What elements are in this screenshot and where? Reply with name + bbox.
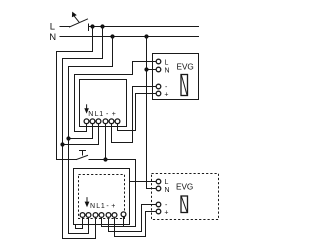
wire L bus right segment xyxy=(89,26,199,28)
svg-text:L: L xyxy=(165,60,169,67)
EVG2 terminal circles minus plus xyxy=(156,202,161,207)
svg-text:+: + xyxy=(112,111,116,118)
svg-text:EVG: EVG xyxy=(176,183,193,192)
svg-text:L: L xyxy=(96,203,100,210)
wire U1 terminal 1 to pushbutton line xyxy=(105,124,107,160)
svg-text:N: N xyxy=(165,68,170,75)
svg-text:1: 1 xyxy=(101,203,105,210)
svg-text:L: L xyxy=(165,179,169,186)
node dot N junction xyxy=(66,136,70,140)
node dot N bus x112.5 xyxy=(110,34,114,38)
wire from L bus to L1 terminals xyxy=(63,27,103,239)
node dot L bus x92.5 xyxy=(90,24,94,28)
wire U2 N terminal to N drop xyxy=(69,218,89,234)
control unit U1 output arrow xyxy=(86,105,88,109)
svg-text:N: N xyxy=(88,111,93,118)
wire auxiliary terminal branch xyxy=(123,217,125,226)
pushbutton T1 blade xyxy=(77,155,88,159)
wire EVG2 N stub xyxy=(147,188,156,190)
wire U1 N terminal to N drop xyxy=(69,124,93,139)
node dot L bus x102.5 xyxy=(100,24,104,28)
wire N bus xyxy=(60,36,199,38)
wire L bus left segment xyxy=(60,26,70,28)
svg-text:1: 1 xyxy=(99,111,103,118)
node dot L1 junction xyxy=(60,142,64,146)
wire U2 output terminal loop to box xyxy=(76,218,83,229)
wire U1 minus terminal to EVG1 minus xyxy=(112,87,156,143)
wire U2 minus terminal to EVG2 minus xyxy=(109,205,156,232)
node dot N bus x146.5 xyxy=(144,34,148,38)
control unit U1 box xyxy=(80,80,127,127)
node dot pushbutton junction xyxy=(103,157,107,161)
wire U1 plus terminal to EVG1 plus xyxy=(118,94,156,131)
wire U2 terminal 1 to pushbutton line xyxy=(102,218,136,227)
wire from L bus to pushbutton xyxy=(57,27,93,160)
control unit U1 terminal circles xyxy=(84,119,89,124)
svg-text:EVG: EVG xyxy=(177,63,194,72)
node dot EVG1 N xyxy=(144,67,148,71)
svg-text:+: + xyxy=(164,210,168,217)
wire stub EVG1 N from dot xyxy=(147,69,156,71)
pushbutton T1 actuator xyxy=(80,151,86,156)
wire from N bus to N terminals xyxy=(69,37,113,234)
pushbutton T1 wire right to unit terminals xyxy=(89,160,136,227)
svg-text:N: N xyxy=(90,203,95,210)
wire U1 output terminal to EVG1 L xyxy=(75,62,156,132)
EVG1 lamp symbol xyxy=(181,75,188,96)
extension unit U2 output arrow xyxy=(86,198,88,202)
svg-text:+: + xyxy=(111,203,115,210)
EVG1 box xyxy=(153,54,199,100)
switch S1 actuation arrow xyxy=(75,17,79,22)
EVG1 terminal circles minus plus xyxy=(156,84,161,89)
wire U2 L1 terminal to L drop xyxy=(63,218,96,239)
extension unit U2 terminal circles xyxy=(80,213,85,218)
svg-text:L: L xyxy=(95,111,99,118)
EVG2 dashed box xyxy=(152,174,219,220)
wire U1 L1 terminal to L drop xyxy=(63,124,99,145)
wire box edge to EVG2 L xyxy=(130,181,156,183)
svg-text:+: + xyxy=(164,92,168,99)
pushbutton T1 wire left xyxy=(57,159,77,161)
svg-text:N: N xyxy=(165,187,170,194)
extension unit U2 outer wire box xyxy=(74,169,130,225)
wire N bus to EVG1 and EVG2 N xyxy=(146,37,148,189)
extension unit U2 auxiliary terminal circle xyxy=(121,212,126,217)
switch S1 blade xyxy=(70,19,88,27)
svg-text:L: L xyxy=(50,22,55,33)
EVG2 terminal circles L N xyxy=(156,179,161,184)
wire U2 plus terminal to EVG2 plus xyxy=(115,212,156,237)
svg-text:N: N xyxy=(49,32,56,43)
switch S1 fixed contact tick xyxy=(88,24,90,31)
extension unit U2 dashed outline xyxy=(79,175,125,219)
EVG1 terminal circles L N xyxy=(156,59,161,64)
EVG2 lamp symbol xyxy=(181,196,188,213)
